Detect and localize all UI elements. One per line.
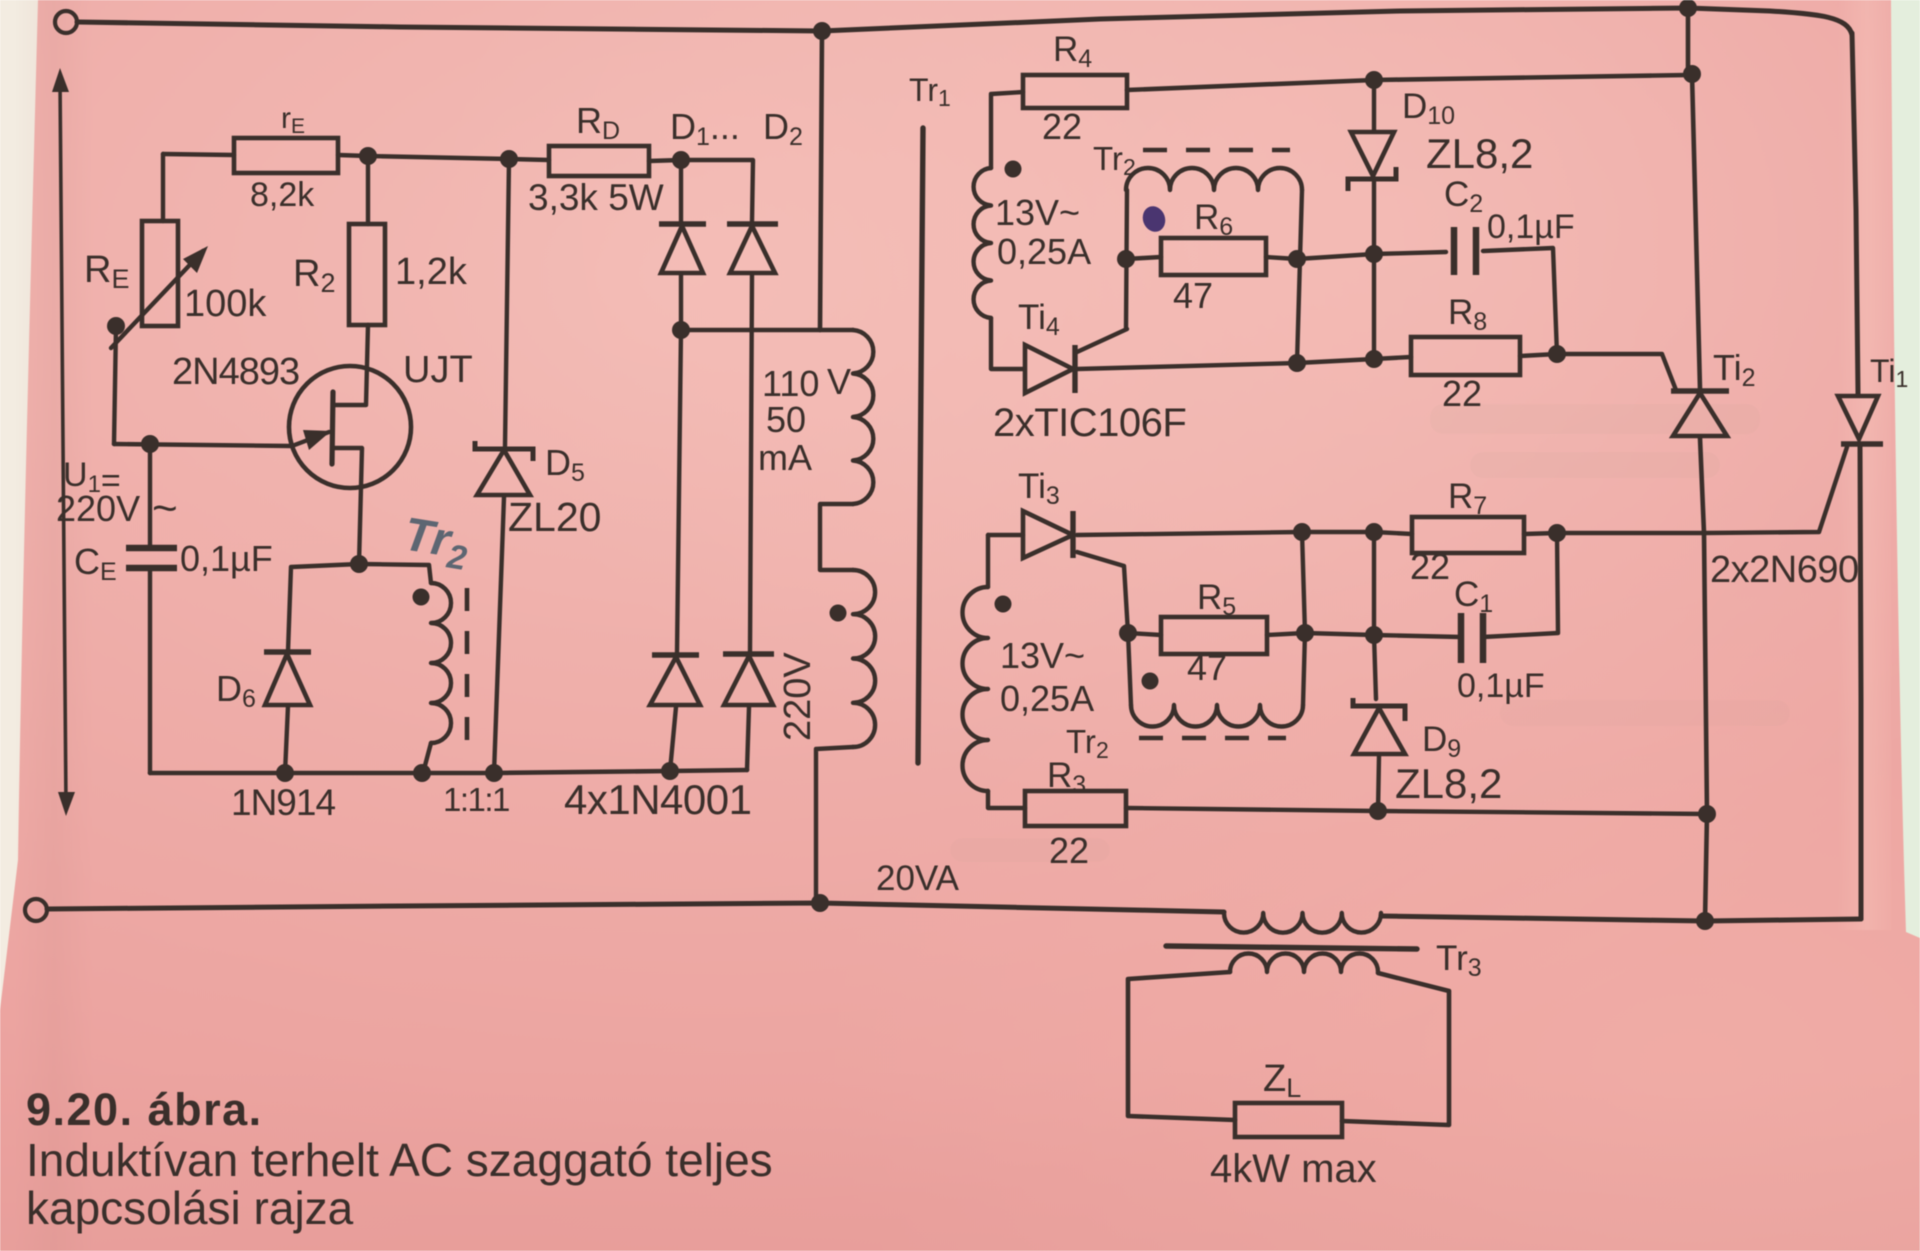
svg-text:ZL8,2: ZL8,2 xyxy=(1395,760,1502,807)
svg-text:47: 47 xyxy=(1187,647,1227,688)
svg-text:UJT: UJT xyxy=(403,349,473,391)
svg-text:4kW max: 4kW max xyxy=(1210,1147,1377,1191)
svg-text:1N914: 1N914 xyxy=(231,782,335,823)
svg-text:100k: 100k xyxy=(184,283,267,325)
svg-text:220V: 220V xyxy=(56,488,140,529)
svg-text:13V~: 13V~ xyxy=(995,192,1080,233)
svg-text:22: 22 xyxy=(1049,830,1089,871)
svg-text:0,1µF: 0,1µF xyxy=(180,538,273,579)
svg-text:2xTIC106F: 2xTIC106F xyxy=(993,401,1186,445)
svg-text:22: 22 xyxy=(1442,373,1482,414)
svg-text:220V: 220V xyxy=(777,652,819,741)
svg-text:22: 22 xyxy=(1410,546,1450,587)
svg-text:2x2N690: 2x2N690 xyxy=(1710,549,1859,591)
svg-text:Induktívan terhelt AC szaggató: Induktívan terhelt AC szaggató teljes xyxy=(26,1134,773,1186)
svg-text:47: 47 xyxy=(1173,275,1213,316)
svg-text:1:1:1: 1:1:1 xyxy=(443,781,509,818)
svg-text:110: 110 xyxy=(762,363,819,404)
svg-text:0,25A: 0,25A xyxy=(997,231,1091,272)
svg-text:ZL20: ZL20 xyxy=(508,494,601,540)
svg-text:V: V xyxy=(827,361,851,402)
svg-text:~: ~ xyxy=(152,484,178,533)
svg-text:0,1µF: 0,1µF xyxy=(1487,208,1575,246)
svg-text:8,2k: 8,2k xyxy=(250,176,315,214)
svg-text:mA: mA xyxy=(758,437,812,478)
svg-text:4x1N4001: 4x1N4001 xyxy=(564,776,751,823)
svg-text:13V~: 13V~ xyxy=(1000,635,1085,676)
svg-text:kapcsolási rajza: kapcsolási rajza xyxy=(26,1182,354,1234)
svg-text:20VA: 20VA xyxy=(876,859,960,898)
svg-text:1,2k: 1,2k xyxy=(395,251,468,293)
svg-text:0,25A: 0,25A xyxy=(1000,678,1094,719)
svg-text:3,3k 5W: 3,3k 5W xyxy=(528,177,664,218)
svg-text:22: 22 xyxy=(1042,106,1082,147)
svg-text:50: 50 xyxy=(766,399,806,440)
svg-text:2N4893: 2N4893 xyxy=(172,351,299,393)
svg-text:ZL8,2: ZL8,2 xyxy=(1426,130,1533,177)
svg-text:0,1µF: 0,1µF xyxy=(1457,667,1545,705)
svg-text:9.20. ábra.: 9.20. ábra. xyxy=(26,1084,263,1135)
